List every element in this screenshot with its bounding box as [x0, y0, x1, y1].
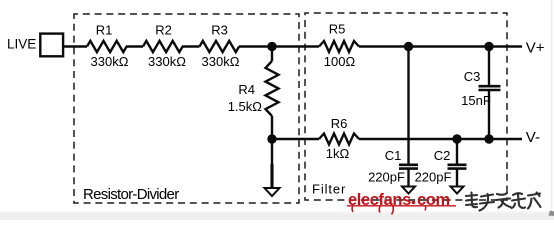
svg-text:LIVE: LIVE — [7, 36, 36, 51]
resistor R1 — [87, 41, 127, 52]
wire LIVE box to R1 — [63, 45, 87, 47]
value 330kΩ (R3) — [202, 54, 240, 69]
value 220pF (C1) — [368, 170, 405, 185]
value 1.5kΩ (R4) — [228, 99, 263, 114]
svg-text:330kΩ: 330kΩ — [148, 54, 186, 69]
Filter dashed block — [305, 13, 507, 200]
value 1kΩ (R6) — [326, 146, 350, 161]
Resistor-Divider dashed block — [74, 14, 299, 203]
value 100Ω (R5) — [324, 54, 356, 69]
label C1 — [385, 148, 402, 163]
node F junction dot (C3 tap on V- rail) — [484, 134, 493, 143]
svg-text:330kΩ: 330kΩ — [202, 54, 240, 69]
svg-text:V-: V- — [526, 129, 540, 146]
value 330kΩ (R1) — [91, 54, 129, 69]
label C3 — [464, 69, 481, 84]
svg-text:R1: R1 — [96, 23, 113, 38]
node LIVE label — [7, 36, 36, 51]
LIVE input terminal box — [40, 34, 63, 57]
svg-text:V+: V+ — [526, 39, 545, 56]
watermark chinese characters 电子发烧友 (drawn strokes) — [466, 193, 541, 211]
value 220pF (C2) — [415, 170, 452, 185]
wire R3 to R5 through node A — [239, 45, 319, 47]
wire node B down to ground — [271, 139, 273, 188]
wire R1 to R2 — [126, 45, 143, 47]
svg-text:R3: R3 — [211, 23, 228, 38]
label R5 — [329, 22, 346, 37]
label V- — [526, 129, 540, 146]
resistor R5 — [319, 41, 359, 52]
resistor R3 — [200, 41, 240, 52]
svg-text:C1: C1 — [385, 148, 402, 163]
corner resize arrow — [549, 211, 554, 217]
ground (C2) — [451, 187, 464, 194]
capacitor C1 — [399, 47, 418, 187]
label R2 — [155, 23, 172, 38]
svg-text:1.5kΩ: 1.5kΩ — [228, 99, 263, 114]
wire R2 to R3 — [182, 45, 200, 47]
label R4 — [238, 82, 255, 97]
node C junction dot (C1 tap on V+ rail) — [404, 42, 413, 51]
svg-text:1kΩ: 1kΩ — [326, 146, 350, 161]
label C2 — [434, 148, 451, 163]
svg-text:220pF: 220pF — [415, 170, 452, 185]
wire R5 to V+ — [359, 45, 522, 47]
svg-text:C2: C2 — [434, 148, 451, 163]
svg-text:15nF: 15nF — [461, 93, 491, 108]
ground (C1) — [402, 187, 415, 194]
label Resistor-Divider — [83, 186, 179, 203]
label R6 — [331, 116, 348, 131]
svg-text:R4: R4 — [238, 82, 255, 97]
node E junction dot (C2 tap on V- rail) — [452, 134, 461, 143]
label V+ — [526, 39, 545, 56]
svg-text:C3: C3 — [464, 69, 481, 84]
label R3 — [211, 23, 228, 38]
right edge shading — [551, 0, 553, 220]
ground (divider) — [265, 188, 280, 196]
svg-text:R6: R6 — [331, 116, 348, 131]
node B junction dot (R4/R6/ground) — [267, 134, 276, 143]
capacitor C2 — [448, 139, 467, 187]
svg-text:100Ω: 100Ω — [324, 54, 356, 69]
node D junction dot (C3 tap on V+ rail) — [484, 42, 493, 51]
svg-text:R2: R2 — [155, 23, 172, 38]
watermark elecfans.com — [347, 191, 456, 215]
value 15nF (C3) — [461, 93, 491, 108]
svg-text:R5: R5 — [329, 22, 346, 37]
resistor R2 — [143, 41, 183, 52]
label Filter — [312, 182, 346, 197]
svg-text:220pF: 220pF — [368, 170, 405, 185]
value 330kΩ (R2) — [148, 54, 186, 69]
capacitor C3 — [479, 47, 501, 140]
wire node B to R6 — [272, 138, 319, 140]
svg-text:330kΩ: 330kΩ — [91, 54, 129, 69]
svg-text:Resistor-Divider: Resistor-Divider — [83, 186, 179, 203]
svg-text:Filter: Filter — [312, 182, 346, 197]
node A junction dot (R3/R4/R5) — [267, 42, 276, 51]
label R1 — [96, 23, 113, 38]
wire R6 to V- — [359, 138, 522, 140]
bottom gray strip — [0, 211, 554, 213]
resistor R6 — [319, 134, 359, 145]
resistor R4 (vertical) — [266, 47, 279, 140]
